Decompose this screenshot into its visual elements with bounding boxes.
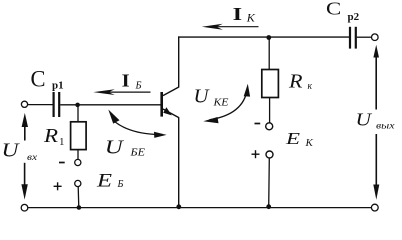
plus sign E_B: [54, 182, 62, 190]
svg-text:I: I: [122, 71, 130, 91]
label I_K: [233, 4, 257, 25]
junction dot E_K on bottom rail: [266, 204, 271, 209]
wire R1 to E_B minus terminal: [77, 150, 79, 160]
label U_KE: [194, 87, 230, 109]
transistor emitter arrow: [163, 107, 172, 115]
label E_B: [96, 171, 124, 192]
top rail: [178, 36, 349, 38]
junction node on top rail: [266, 35, 271, 40]
svg-text:1: 1: [59, 136, 65, 148]
svg-text:Б: Б: [117, 179, 124, 190]
svg-text:вых: вых: [376, 122, 395, 132]
U_BE curved arrow: [108, 110, 166, 138]
minus sign E_K: [255, 123, 261, 125]
bottom rail: [28, 207, 372, 209]
input terminal top-left: [21, 101, 27, 107]
svg-text:p2: p2: [348, 11, 360, 23]
minus sign E_B: [59, 162, 65, 164]
svg-text:R: R: [43, 126, 58, 147]
svg-text:E: E: [285, 129, 301, 148]
label C_p2: [326, 0, 360, 23]
resistor R1: [71, 122, 87, 150]
svg-text:U: U: [2, 141, 21, 162]
svg-text:C: C: [326, 0, 341, 19]
output terminal bottom-right: [371, 204, 378, 211]
battery E_K minus terminal: [266, 123, 273, 130]
label U_vx: [2, 141, 38, 162]
label U_BE: [105, 137, 145, 158]
emitter wire down: [178, 117, 180, 207]
svg-text:К: К: [305, 137, 314, 149]
battery E_K plus terminal: [266, 151, 273, 158]
battery E_B minus terminal: [75, 159, 81, 165]
transistor emitter diagonal: [163, 109, 179, 118]
wire C_p1 to transistor base: [60, 104, 161, 106]
svg-text:U: U: [105, 137, 125, 158]
svg-text:Б: Б: [134, 81, 141, 92]
wire E_B plus to bottom rail: [77, 187, 80, 208]
label U_vyx: [356, 110, 396, 132]
wire C_p2 to output terminal: [357, 36, 372, 38]
resistor R_k: [262, 70, 279, 98]
svg-text:E: E: [96, 171, 113, 192]
wire E_K plus to bottom rail: [268, 158, 271, 208]
plus sign E_K: [252, 150, 260, 158]
svg-text:вх: вх: [27, 152, 37, 162]
svg-text:U: U: [356, 110, 373, 130]
svg-text:к: к: [308, 81, 313, 92]
node A (junction after C_p1): [75, 103, 80, 108]
svg-text:C: C: [31, 67, 46, 92]
label C_p1: [31, 67, 64, 92]
capacitor C_p1: [54, 92, 60, 117]
arrow I_B: [93, 89, 150, 95]
transistor collector diagonal: [163, 87, 179, 96]
battery E_B plus terminal: [75, 180, 81, 186]
label I_B: [122, 71, 142, 92]
svg-text:p1: p1: [52, 80, 64, 92]
arrow I_K: [202, 24, 259, 30]
svg-text:К: К: [246, 13, 256, 25]
collector wire up: [178, 36, 180, 87]
label R_k: [288, 72, 312, 93]
svg-text:I: I: [233, 4, 243, 24]
U_KE curved arrow: [203, 84, 250, 123]
U_vyx up arrow: [373, 45, 379, 110]
transistor VT base bar: [160, 92, 163, 117]
wire input to C_p1: [28, 104, 53, 106]
svg-text:БЕ: БЕ: [129, 147, 145, 158]
wire top node down to R_k: [268, 38, 270, 70]
U_vyx down arrow: [373, 134, 379, 200]
U_vx up arrow: [22, 113, 28, 141]
label R1: [43, 126, 65, 148]
output terminal top-right: [372, 34, 379, 41]
wire node A down to R1: [77, 105, 79, 122]
junction dot emitter on bottom rail: [176, 204, 181, 209]
svg-text:U: U: [194, 87, 211, 108]
U_vx down arrow: [21, 163, 27, 200]
capacitor C_p2: [350, 27, 356, 49]
svg-text:КЕ: КЕ: [212, 98, 229, 109]
input terminal bottom-left: [21, 204, 28, 211]
svg-text:R: R: [288, 72, 303, 93]
junction dot E_B on bottom rail: [77, 205, 82, 210]
label E_K: [285, 129, 314, 149]
wire R_k to E_K minus terminal: [269, 98, 271, 123]
